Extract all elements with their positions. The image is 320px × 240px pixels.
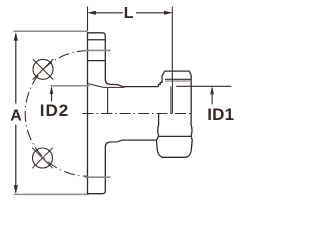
bolt hole upper circle: [33, 59, 53, 79]
bolt hole lower circle: [33, 148, 53, 168]
horizontal centerline: [83, 113, 191, 115]
ID1 leader: [211, 88, 213, 105]
tube bottom outline: [110, 140, 155, 142]
arrowhead A bottom: [14, 185, 18, 193]
dimension A extension line top: [14, 30, 88, 32]
ID2 leader arrow: [50, 86, 54, 94]
dimension A extension line bottom: [14, 193, 89, 195]
arrowhead A top: [14, 32, 18, 40]
dimension A line: [15, 34, 17, 104]
bolt hole centerline lower: [85, 176, 111, 178]
tube end vertical: [107, 87, 109, 113]
arrowhead L right: [164, 11, 172, 15]
nut bottom hex: [156, 114, 192, 158]
svg-text:ID1: ID1: [207, 105, 234, 124]
dimension L line: [89, 12, 123, 14]
ID1 leader arrow: [210, 86, 214, 94]
thread end verticals: [170, 86, 172, 113]
bolt hole centerline upper: [85, 49, 111, 51]
ID2 leader: [51, 88, 53, 102]
hex edge line: [159, 135, 192, 137]
dimension L extension line left: [87, 7, 89, 32]
bolt hole upper cross: [33, 59, 54, 80]
bore taper ID2: [88, 84, 124, 88]
thread minor line: [165, 80, 190, 82]
svg-text:L: L: [124, 5, 134, 22]
nut top section profile: [159, 71, 192, 113]
flange outline: [88, 33, 111, 85]
tube top outline: [110, 84, 158, 86]
dimension L extension line right: [171, 7, 173, 80]
flange left edge: [87, 32, 89, 194]
arrowhead L left: [88, 11, 96, 15]
bolt circle arc (dash-dot): [25, 51, 88, 177]
svg-text:A: A: [10, 107, 22, 124]
ID2 pointer line: [51, 85, 90, 87]
svg-text:ID2: ID2: [40, 101, 69, 120]
ID1 bore line: [176, 85, 231, 87]
bolt hole lower cross: [32, 148, 53, 169]
thread major line: [165, 78, 191, 80]
bolt hole section edges: [88, 39, 106, 41]
